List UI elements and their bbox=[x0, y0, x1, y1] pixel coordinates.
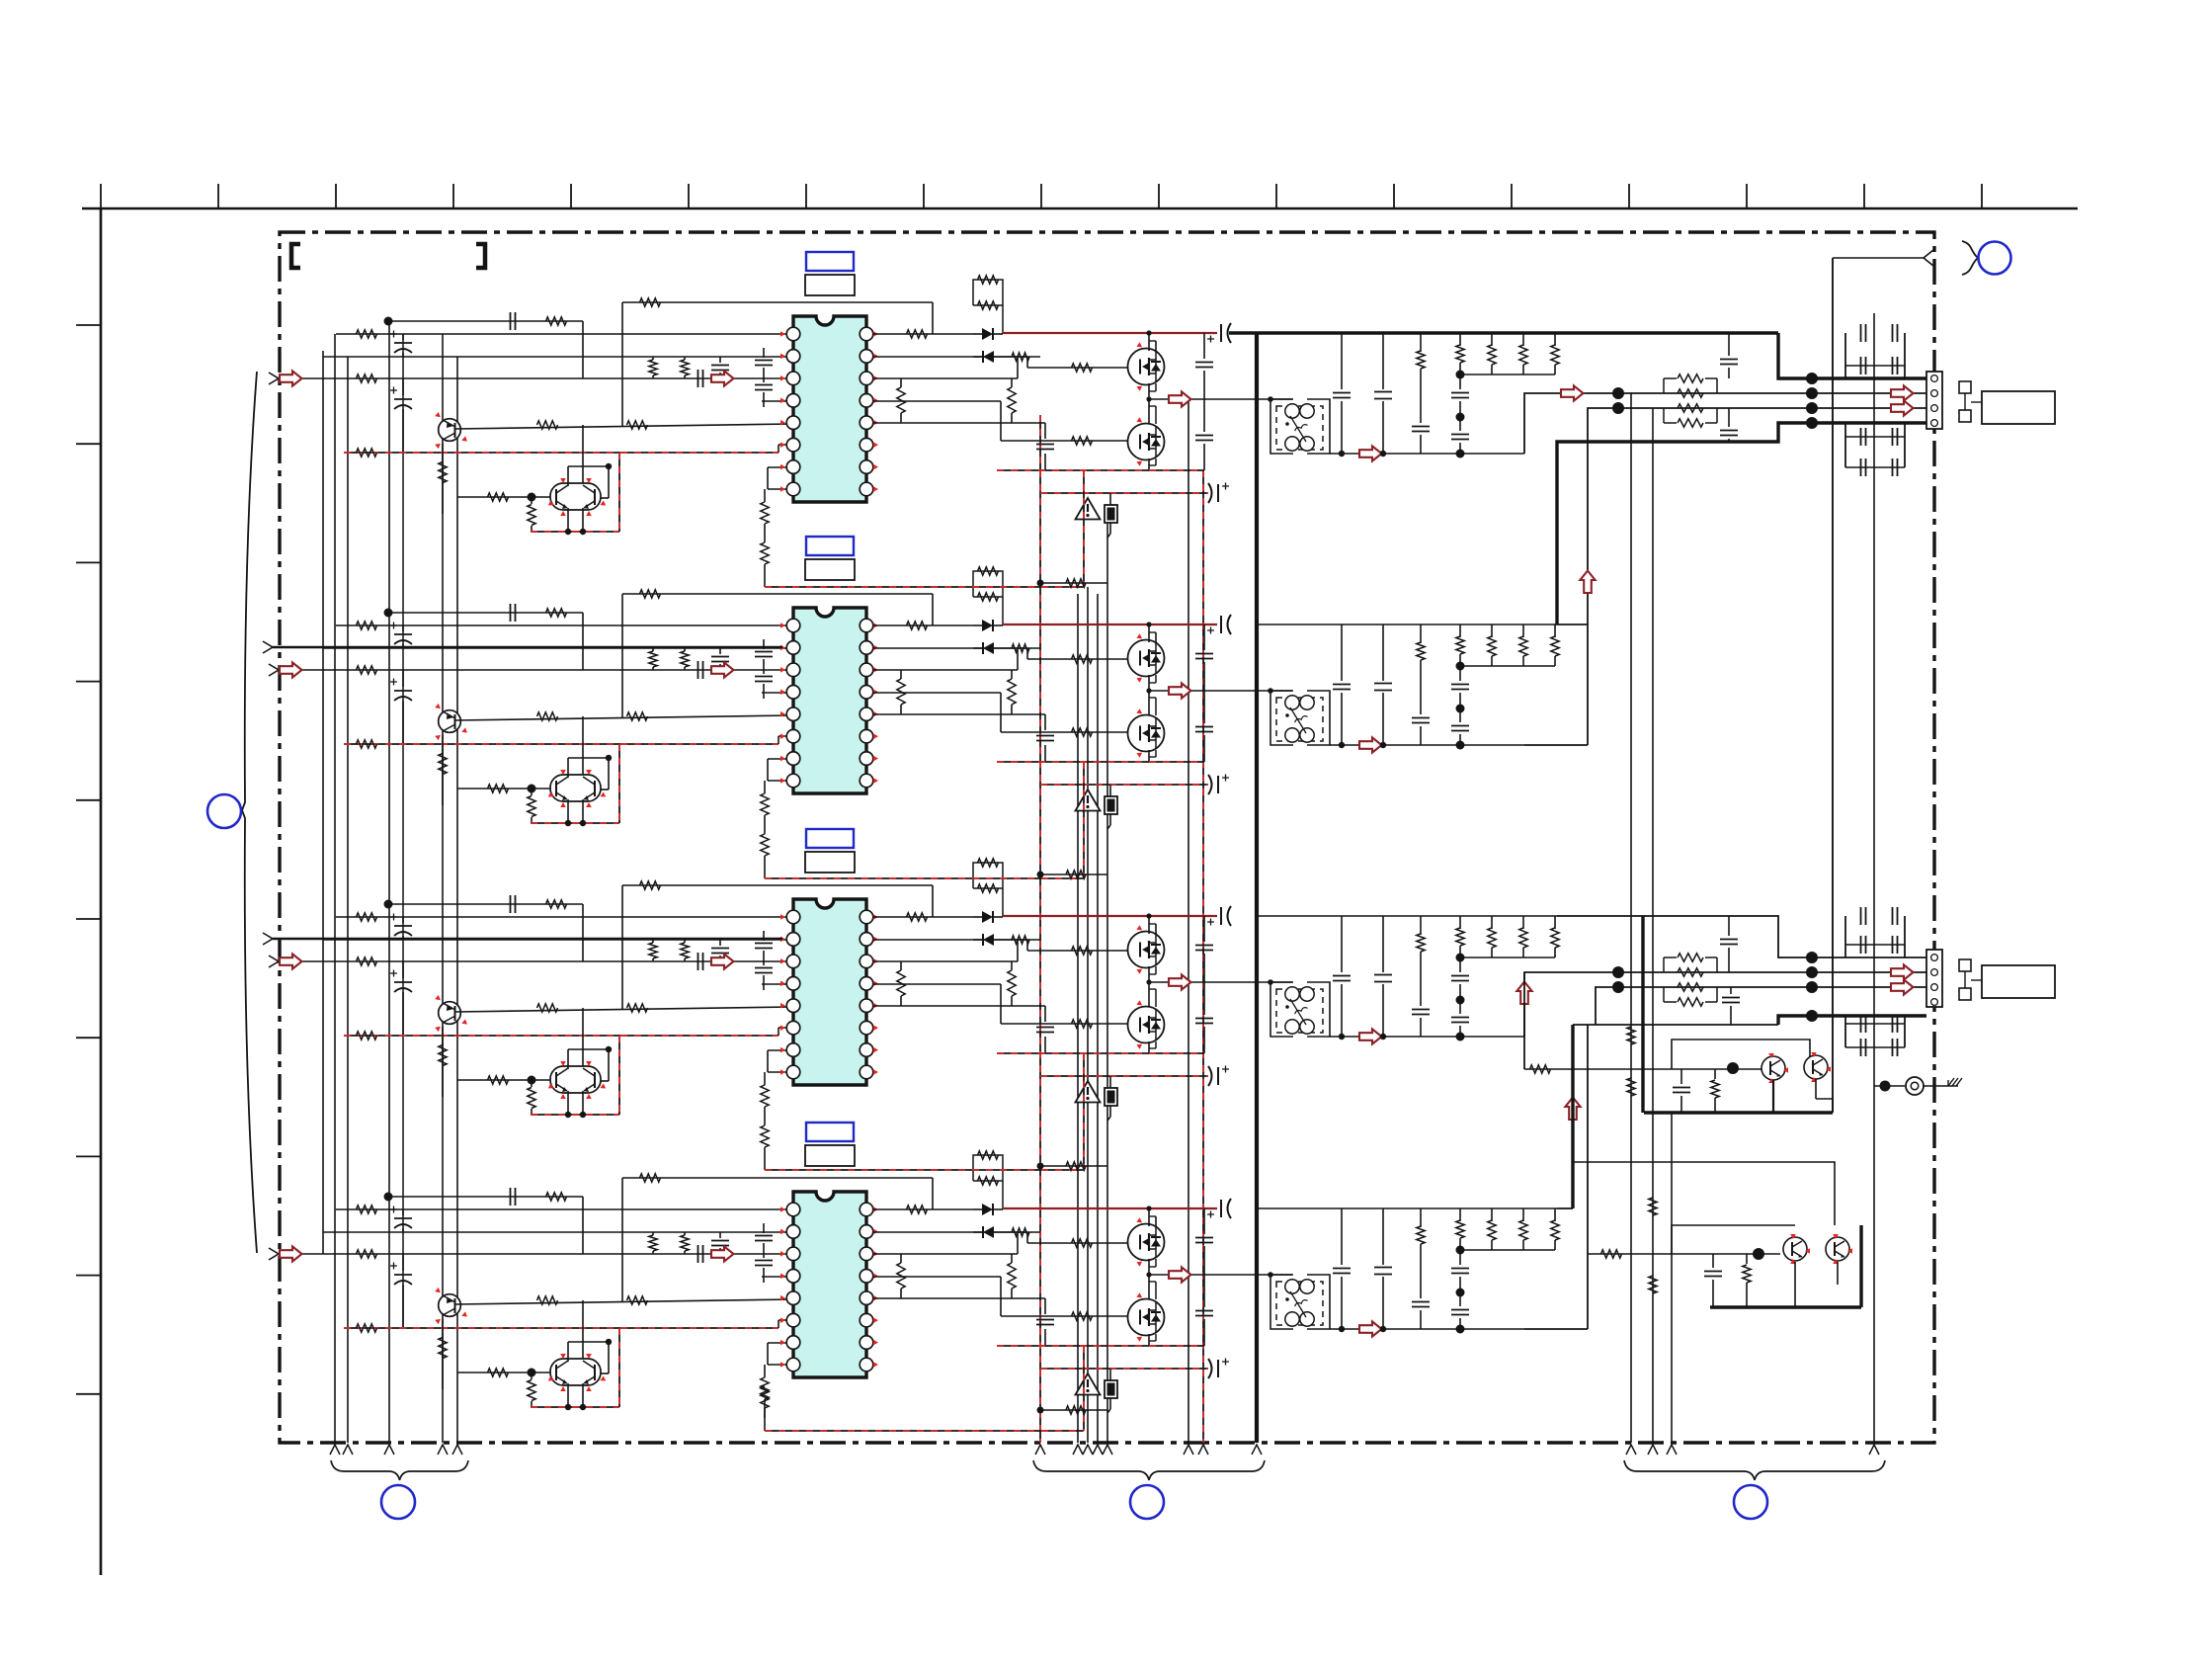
capacitor riser C bbox=[1728, 916, 1730, 936]
channel 1 amplifier block bbox=[302, 276, 1559, 542]
wire mid bus G (red dashed) bbox=[1039, 415, 1041, 1443]
red arrow up ch2 bbox=[1580, 571, 1595, 594]
brace bottom left bbox=[331, 1460, 468, 1480]
wire mid bus J bbox=[1097, 594, 1099, 1443]
channel 2 amplifier block bbox=[302, 567, 1559, 834]
supply entry wire bbox=[1833, 257, 1925, 259]
label blue + name rect bbox=[806, 829, 854, 848]
capacitor riser B bbox=[1728, 408, 1730, 427]
wire red-dashed under IC bbox=[765, 877, 1084, 879]
thick drop to protection bbox=[1641, 916, 1644, 1113]
reference circle left bbox=[207, 794, 241, 828]
speaker box bottom bbox=[1982, 965, 2055, 998]
wire left bus D bbox=[388, 321, 390, 1443]
resistors on bus M bbox=[1627, 1027, 1635, 1044]
capacitor riser D bbox=[1730, 987, 1732, 994]
wire left input bus A bbox=[322, 351, 324, 1254]
red arrow up ch4 bbox=[1565, 1098, 1580, 1121]
resistor pair box A bbox=[1663, 378, 1665, 393]
resistor mid tap bbox=[1040, 1409, 1107, 1411]
resistors on bus N bbox=[1649, 1198, 1657, 1215]
speaker line3 bottom (ch4 output) bbox=[1524, 1328, 1588, 1330]
resistor lower left B bbox=[761, 1386, 769, 1408]
thick ground pair1 bbox=[1644, 1111, 1833, 1114]
power bus thick vertical bbox=[1255, 333, 1259, 1443]
resistor lower left B bbox=[761, 542, 769, 564]
capacitor riser A bbox=[1728, 333, 1730, 356]
transistor pair block 1 bbox=[1672, 1040, 1810, 1069]
reference circle supply bbox=[1979, 242, 2011, 275]
input group brace bbox=[242, 372, 257, 1253]
input wire heavy bbox=[273, 938, 782, 941]
resistor pair2 bbox=[1746, 1254, 1748, 1264]
wire left bus B bbox=[334, 334, 336, 1443]
resistor mid tap bbox=[1040, 1165, 1107, 1167]
wire red-dashed under IC bbox=[765, 1430, 1084, 1432]
brace bottom middle bbox=[1033, 1460, 1265, 1480]
resistor pair1 bbox=[1714, 1069, 1716, 1079]
wire left bus F bbox=[456, 357, 458, 1443]
label blue + name rect bbox=[806, 1123, 854, 1141]
reference circle bottom middle bbox=[1130, 1485, 1164, 1519]
input wire mark bbox=[263, 933, 273, 945]
wire right bus P bbox=[1873, 313, 1875, 1443]
connector bottom speaker bbox=[1926, 950, 1942, 1007]
channel 4 amplifier block bbox=[302, 1151, 1559, 1418]
capacitor pair2 bbox=[1712, 1254, 1714, 1268]
capacitor pair1 bbox=[1680, 1069, 1682, 1084]
speaker box top bbox=[1982, 391, 2055, 424]
wire ch2 rail extension bbox=[1557, 624, 1588, 625]
thick ground pair2 bbox=[1710, 1305, 1861, 1308]
resistor pair box C bbox=[1663, 957, 1665, 972]
wire negative rail bus (red dashed) bbox=[1202, 470, 1204, 1443]
label blue + name rect bbox=[806, 537, 854, 555]
speaker line4 bottom (ch4 rail thick) bbox=[1557, 1207, 1573, 1209]
wire red-dashed rail riser bbox=[1083, 1053, 1085, 1170]
wire right bus N bbox=[1652, 408, 1654, 1443]
top ruler line bbox=[82, 208, 2078, 210]
input arrow channel 4 bbox=[269, 1248, 279, 1260]
transistor pair block 2 bbox=[1573, 1162, 1835, 1225]
connector top speaker bbox=[1926, 372, 1942, 429]
red arrows to bottom connector bbox=[1891, 964, 1914, 979]
bracket left of board title bbox=[291, 244, 300, 268]
wire right bus M bbox=[1630, 393, 1632, 1443]
resistor lower left B bbox=[761, 834, 769, 856]
red arrow ch1 out bbox=[1561, 385, 1584, 400]
left ruler ticks bbox=[76, 324, 101, 326]
input wire heavy bbox=[273, 646, 782, 649]
input arrow channel 2 bbox=[269, 664, 279, 676]
red arrow up ch3 bbox=[1516, 982, 1531, 1005]
wire red-dashed rail riser bbox=[1083, 762, 1085, 878]
resistor pair box B bbox=[1663, 408, 1665, 423]
speaker line2 top (ch1 output) bbox=[1524, 393, 1926, 454]
resistor lower left B bbox=[761, 1125, 769, 1147]
cap filter box lower2 bbox=[1844, 1016, 1846, 1047]
chassis ground eyelet bbox=[1880, 1081, 1891, 1092]
wire right bus O bbox=[1671, 1113, 1673, 1443]
speaker line1 bottom (ch3 rail) bbox=[1557, 916, 1926, 957]
wire left bus C bbox=[347, 357, 349, 1443]
cap filter box lower bbox=[1844, 423, 1846, 467]
input arrow channel 1 bbox=[269, 373, 279, 384]
resistor pair box D bbox=[1663, 987, 1665, 1002]
resistor mid tap bbox=[1040, 582, 1107, 584]
top ruler ticks bbox=[100, 184, 102, 208]
resistor mid tap bbox=[1040, 874, 1107, 875]
speaker line2 bottom (ch3 output) bbox=[1524, 972, 1926, 1037]
brace bottom right bbox=[1624, 1460, 1885, 1480]
cap filter box upper bbox=[1844, 333, 1846, 378]
bracket right of board title bbox=[476, 244, 485, 268]
wire left bus E bbox=[442, 334, 444, 1443]
speaker terminal squares bbox=[1959, 381, 1971, 393]
wire mid bus K bbox=[1106, 524, 1108, 1443]
wire mid bus I bbox=[1087, 587, 1089, 1443]
input wire mark bbox=[263, 641, 273, 653]
wire supply drop bbox=[1832, 258, 1834, 1113]
bottom border wire exits bbox=[330, 1445, 340, 1455]
speaker terminal squares bottom bbox=[1959, 959, 1971, 971]
reference circle bottom right bbox=[1734, 1485, 1767, 1519]
input arrow channel 3 bbox=[269, 956, 279, 967]
reference circle bottom left bbox=[381, 1485, 415, 1519]
wire left bus ecap column bbox=[402, 334, 404, 1328]
wire red-dashed under IC bbox=[765, 586, 1084, 588]
brace supply bbox=[1962, 241, 1978, 275]
cap filter box upper2 bbox=[1844, 916, 1846, 957]
wire mid bus H bbox=[1077, 594, 1079, 1443]
wire red-dashed rail riser bbox=[1083, 470, 1085, 587]
red arrows to top connector bbox=[1891, 385, 1914, 400]
power bus thick top bbox=[1229, 331, 1778, 334]
board outline dash-dot border bbox=[280, 232, 1934, 1443]
speaker line1 top (thick) bbox=[1778, 333, 1926, 378]
wire red-dashed under IC bbox=[765, 1169, 1084, 1171]
left ruler line bbox=[100, 208, 103, 1575]
label blue + name rect bbox=[806, 252, 854, 271]
speaker line3 top (ch2 output) bbox=[1524, 744, 1588, 746]
wire mid bus L bbox=[1188, 399, 1189, 1443]
wire red-dashed rail riser bbox=[1083, 1346, 1085, 1431]
speaker line4 top (thick) bbox=[1557, 423, 1926, 624]
channel 3 amplifier block bbox=[302, 859, 1559, 1125]
